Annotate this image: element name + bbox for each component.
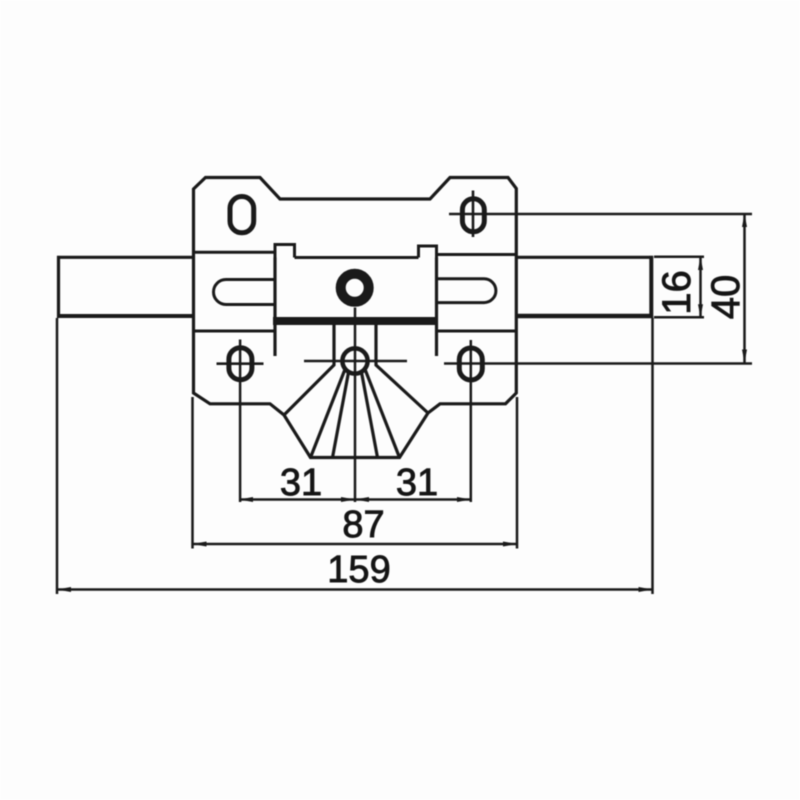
svg-text:31: 31 [280, 462, 322, 504]
svg-text:16: 16 [655, 270, 699, 315]
svg-text:40: 40 [704, 275, 748, 320]
svg-text:159: 159 [327, 549, 390, 591]
svg-text:87: 87 [342, 504, 384, 546]
svg-text:31: 31 [396, 462, 438, 504]
